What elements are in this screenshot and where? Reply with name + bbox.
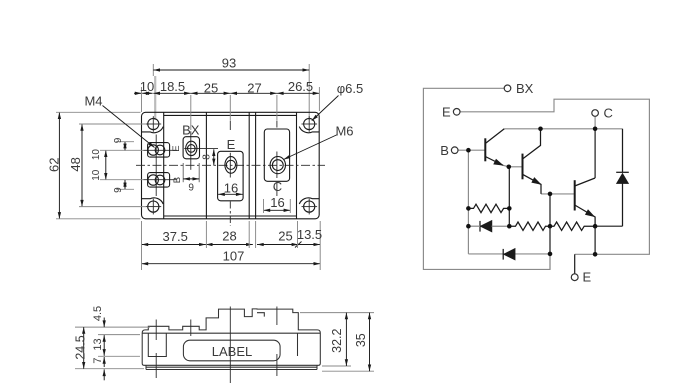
svg-text:10: 10 [91, 149, 102, 161]
svg-text:107: 107 [223, 249, 245, 264]
svg-text:4.5: 4.5 [92, 306, 104, 321]
svg-text:C: C [273, 179, 282, 194]
svg-text:10: 10 [91, 169, 102, 181]
svg-text:35: 35 [354, 333, 368, 347]
svg-text:16: 16 [270, 195, 284, 210]
svg-text:13.5: 13.5 [297, 227, 322, 242]
svg-text:E: E [227, 137, 236, 152]
svg-text:φ6.5: φ6.5 [337, 81, 364, 96]
svg-text:62: 62 [47, 158, 62, 172]
svg-text:16: 16 [224, 181, 238, 196]
svg-text:LABEL: LABEL [212, 344, 252, 359]
svg-text:9: 9 [113, 187, 124, 193]
svg-text:25: 25 [204, 81, 218, 96]
svg-text:24.5: 24.5 [73, 335, 87, 359]
svg-text:B: B [440, 143, 449, 158]
svg-text:M4: M4 [84, 94, 102, 109]
svg-text:E: E [442, 105, 451, 120]
svg-text:BX: BX [182, 123, 200, 138]
svg-text:7: 7 [92, 357, 104, 363]
svg-text:9: 9 [113, 137, 124, 143]
svg-text:BX: BX [516, 81, 534, 96]
svg-text:13: 13 [92, 338, 104, 350]
svg-text:32.2: 32.2 [330, 328, 344, 352]
svg-text:E: E [583, 270, 592, 285]
svg-text:B: B [172, 177, 183, 183]
svg-text:C: C [604, 106, 613, 121]
svg-text:37.5: 37.5 [163, 229, 188, 244]
svg-text:E: E [171, 145, 182, 151]
svg-text:18.5: 18.5 [160, 79, 185, 94]
svg-text:M6: M6 [335, 124, 353, 139]
svg-text:8: 8 [202, 154, 213, 160]
svg-text:93: 93 [222, 56, 236, 71]
svg-text:10: 10 [140, 79, 154, 94]
svg-text:25: 25 [278, 229, 292, 244]
svg-text:28: 28 [222, 229, 236, 244]
svg-text:9: 9 [188, 183, 194, 194]
svg-text:48: 48 [68, 157, 83, 171]
svg-text:27: 27 [247, 81, 261, 96]
svg-text:26.5: 26.5 [288, 79, 313, 94]
